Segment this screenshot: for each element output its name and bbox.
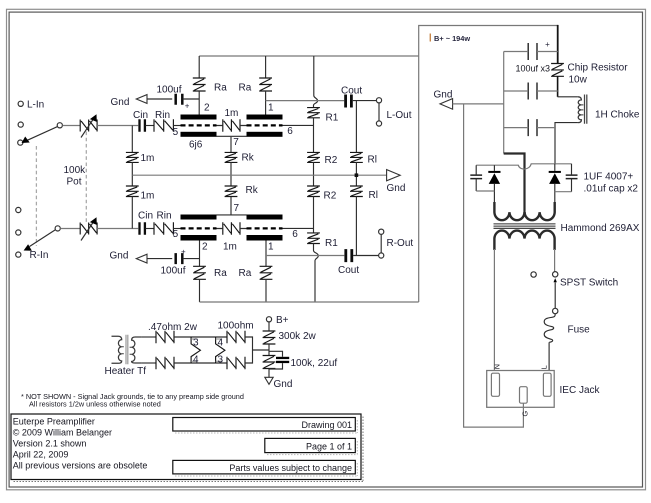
ground symbol heater — [265, 377, 293, 390]
svg-text:Page 1 of 1: Page 1 of 1 — [306, 441, 352, 451]
wire cathode to Rk R — [230, 197, 232, 215]
ground arrow R bottom — [110, 250, 148, 263]
capacitor 100uf x3 third — [528, 119, 537, 136]
wire rectifier cathode bus with hop — [476, 164, 571, 169]
wire B+ to 300k — [268, 322, 270, 331]
svg-text:10w: 10w — [569, 75, 588, 86]
svg-text:Version 2.1 shown: Version 2.1 shown — [13, 439, 87, 449]
wire gnd arrow to 100uf L — [147, 98, 172, 100]
triode U1b grid (dashed) — [247, 124, 283, 126]
wire 1m-R to R input — [131, 197, 133, 229]
resistor Rk R — [225, 185, 259, 197]
transformer core — [494, 224, 556, 228]
svg-text:Ra: Ra — [239, 268, 252, 279]
ground bus mid — [132, 174, 386, 176]
wire grid stubs 1m L — [217, 125, 247, 127]
wire Cout to L-Out — [353, 100, 377, 102]
svg-text:Ra: Ra — [214, 268, 227, 279]
resistor .47ohm 2w top — [148, 322, 198, 343]
svg-text:IEC Jack: IEC Jack — [560, 385, 601, 396]
resistor 1m (R grid leak) — [126, 186, 155, 202]
resistor Ra (L left plate) — [193, 78, 206, 91]
svg-text:R-In: R-In — [30, 250, 49, 261]
svg-text:Rin: Rin — [157, 211, 172, 222]
triode U2b cathode bar — [247, 215, 283, 220]
wire right cap to diode anode — [555, 191, 572, 193]
junction dot bus/Rl — [355, 173, 359, 177]
svg-text:Pot: Pot — [67, 177, 82, 188]
wire Ra legs to bottom rail R — [200, 279, 267, 302]
svg-text:1m: 1m — [223, 241, 237, 252]
svg-text:4: 4 — [193, 354, 199, 365]
capacitor 22uf bias — [269, 351, 337, 369]
svg-text:B+ ~ 194w: B+ ~ 194w — [434, 34, 470, 43]
svg-text:R-Out: R-Out — [387, 238, 414, 249]
ground bus PSU vertical — [503, 52, 505, 154]
wire B+ feed from PSU to preamp rails — [419, 26, 558, 303]
svg-text:1m: 1m — [225, 108, 239, 119]
inductor 1H Choke — [578, 95, 640, 124]
wire gnd elbow to center tap — [504, 154, 525, 214]
resistor Rk L — [225, 152, 255, 163]
jack R input 1 — [16, 207, 21, 212]
triode U1b plate bar — [247, 115, 283, 120]
wire choke bottom to rectifier node — [555, 123, 578, 164]
svg-text:Ra: Ra — [214, 83, 227, 94]
title text lines — [13, 417, 148, 471]
wire 100uf to pin2 node R — [183, 258, 200, 260]
wire R2-L to bus to R2-R — [313, 162, 315, 186]
wire heater right loop — [245, 337, 269, 363]
wire gnd arrow to bus — [453, 103, 504, 105]
resistor Rl R — [350, 186, 378, 201]
svg-text:Chip Resistor: Chip Resistor — [568, 62, 629, 73]
wire Cout to R-Out — [353, 255, 379, 257]
capacitor .01uf left — [470, 165, 482, 191]
svg-text:B+: B+ — [276, 315, 289, 326]
svg-text:Gnd: Gnd — [110, 250, 129, 261]
wire cap2 leads — [504, 90, 558, 92]
wire cap1 leads — [504, 51, 558, 53]
svg-text:Rk: Rk — [242, 153, 255, 164]
svg-text:Hammond 269AX: Hammond 269AX — [561, 223, 640, 234]
wire Tf to .47ohm bottom — [142, 362, 156, 364]
resistor R1 L — [307, 108, 339, 124]
svg-text:6j6: 6j6 — [189, 140, 203, 151]
resistor Rl L — [350, 152, 377, 165]
triode U1a cathode bar — [181, 132, 217, 137]
wire Rk-L to bus to Rk-R — [230, 162, 232, 186]
capacitor 100uf x3 first — [516, 40, 551, 73]
gang dashed link selector — [35, 146, 37, 246]
wire R plate output — [266, 255, 344, 257]
label B+ ~ 194w — [430, 34, 470, 43]
parts box — [173, 460, 357, 476]
svg-text:L-In: L-In — [27, 100, 44, 111]
wire 300k to 100k junction — [268, 344, 270, 356]
svg-text:3: 3 — [193, 338, 199, 349]
resistor Rin R — [154, 211, 173, 235]
resistor Rin L — [154, 110, 173, 132]
svg-text:L-Out: L-Out — [387, 110, 412, 121]
svg-text:Rl: Rl — [369, 190, 378, 201]
svg-text:Cout: Cout — [341, 86, 362, 97]
switch SPST — [531, 272, 618, 309]
capacitor 100uf L — [157, 85, 190, 111]
page box — [265, 438, 358, 454]
jack L input 3 — [18, 140, 23, 145]
triode U2a cathode bar — [181, 215, 217, 220]
svg-text:1: 1 — [268, 102, 274, 113]
wire chip resistor to choke — [557, 76, 559, 97]
triode U2b grid (dashed) — [247, 227, 283, 229]
svg-text:+: + — [181, 247, 186, 256]
selector switch SW-L — [22, 123, 63, 143]
wire selector to pot R — [60, 228, 80, 230]
svg-text:April 22, 2009: April 22, 2009 — [13, 450, 69, 460]
svg-text:1m: 1m — [141, 153, 155, 164]
svg-text:R1: R1 — [325, 238, 338, 249]
svg-text:Rl: Rl — [368, 155, 377, 166]
resistor Ra (R left plate) — [193, 266, 206, 279]
wire gnd arrow to 100uf R — [147, 258, 172, 260]
svg-text:Parts values subject to change: Parts values subject to change — [229, 463, 352, 473]
wire rail to Ra-L-left — [198, 56, 200, 78]
svg-text:.47ohm 2w: .47ohm 2w — [148, 322, 198, 333]
wire safety ground drop to IEC — [464, 104, 524, 427]
svg-text:© 2009 William Belanger: © 2009 William Belanger — [13, 428, 112, 438]
resistor .47ohm bottom — [156, 357, 174, 369]
wire cap3 leads — [504, 127, 555, 129]
wire pot R to grid network — [97, 228, 138, 230]
resistor R1 R — [307, 233, 338, 249]
transformer Heater Tf — [105, 335, 147, 377]
wire 1m-L to ground bus to 1m-R — [131, 162, 133, 186]
svg-text:All previous versions are obso: All previous versions are obsolete — [13, 461, 148, 471]
svg-text:7: 7 — [233, 137, 239, 148]
ground arrow PSU — [434, 90, 453, 110]
wire Ra-right through plate wire to pin1 L — [265, 91, 267, 115]
wire plate pin1 R through output wire to Ra — [265, 241, 267, 267]
jack L-Out — [376, 98, 411, 126]
capacitor 100uf x3 second — [528, 83, 537, 100]
label Ra Ra (L) — [214, 83, 252, 94]
svg-text:2: 2 — [204, 102, 210, 113]
svg-text:Euterpe Preamplifier: Euterpe Preamplifier — [13, 417, 95, 427]
triode U1a grid (dashed) — [181, 124, 217, 126]
label Ra Ra (R) — [214, 268, 252, 279]
svg-text:R2: R2 — [325, 155, 338, 166]
resistor R2 R — [307, 186, 337, 201]
top B+ rail (L plate supply) — [199, 55, 419, 57]
triode U1a plate bar left — [181, 115, 217, 120]
resistor 1m (L grid-grid) — [223, 108, 240, 132]
label 100k Pot — [64, 165, 87, 188]
triode U2a plate bar — [181, 235, 217, 241]
transformer Hammond 269AX primary — [494, 231, 554, 250]
wire rail to Ra-L-right — [265, 56, 267, 78]
wire 100uf to pin2 node L — [183, 98, 199, 100]
wire pot L to grid network — [97, 125, 138, 127]
resistor Chip Resistor 10w — [551, 62, 628, 85]
wire grid stubs 1m R — [217, 228, 247, 230]
wire cathode join L — [217, 135, 247, 137]
wire selector to pot L — [62, 125, 80, 127]
wire Cin to Rin L — [146, 125, 154, 127]
svg-text:100k: 100k — [64, 165, 87, 176]
resistor 1m (R grid-grid) — [223, 222, 240, 252]
node L input junction column — [131, 126, 133, 153]
resistor 300k 2w — [263, 331, 317, 344]
wire R1-R to bottom rail with hop over output wire — [314, 244, 319, 303]
svg-text:5: 5 — [173, 127, 179, 138]
wire R2-R1 column R — [313, 197, 315, 233]
wire cathode to Rk L — [230, 137, 232, 153]
wire output node to Rl L — [355, 101, 357, 153]
svg-text:Ra: Ra — [239, 83, 252, 94]
resistor Ra (L right plate) — [259, 78, 272, 91]
svg-text:3: 3 — [218, 354, 224, 365]
svg-text:+: + — [545, 40, 550, 49]
resistor R2 L — [307, 152, 338, 166]
wire Rl-R to output node — [355, 197, 357, 256]
svg-text:Rk: Rk — [246, 185, 259, 196]
svg-text:Gnd: Gnd — [387, 183, 406, 194]
wire cathode join R — [217, 214, 247, 216]
wire primary left to IEC N — [493, 249, 495, 371]
capacitor Cin L — [133, 110, 148, 132]
wire choke top lead — [558, 96, 578, 98]
capacitor Cin R — [138, 211, 153, 235]
svg-text:100uf x3: 100uf x3 — [516, 64, 551, 74]
svg-text:Heater Tf: Heater Tf — [105, 366, 147, 377]
svg-text:2: 2 — [202, 241, 208, 252]
wire Tf to .47ohm top — [142, 336, 156, 338]
jack L input 2 — [18, 122, 23, 127]
jack R input 2 — [16, 230, 21, 235]
svg-text:L: L — [540, 365, 549, 369]
svg-text:6: 6 — [292, 229, 298, 240]
svg-text:7: 7 — [234, 203, 240, 214]
capacitor .01uf right — [566, 164, 578, 192]
wire heater top bus — [174, 336, 227, 338]
svg-text:Gnd: Gnd — [111, 97, 130, 108]
transformer Hammond 269AX secondary — [494, 202, 554, 220]
wire heater bottom bus — [174, 362, 227, 364]
wire rail to R1-L with hop over plate wire — [314, 56, 318, 108]
bottom B+ rail (R plate supply) — [200, 301, 419, 303]
wire grid pin6 to R1/R2 node R — [283, 227, 314, 229]
svg-text:SPST Switch: SPST Switch — [560, 277, 618, 288]
svg-text:.01uf cap x2: .01uf cap x2 — [584, 184, 639, 195]
wire left cap to diode anode — [476, 190, 494, 192]
selector switch SW-R — [24, 226, 61, 251]
wire grid pin6 to R1/R2 node L — [283, 124, 314, 126]
svg-text:100uf: 100uf — [161, 265, 186, 276]
svg-text:Cout: Cout — [338, 265, 359, 276]
heater pins resistor 4/3 right — [216, 337, 225, 365]
svg-text:R1: R1 — [326, 112, 339, 123]
svg-text:6: 6 — [287, 126, 293, 137]
svg-text:Gnd: Gnd — [274, 379, 293, 390]
svg-text:5: 5 — [173, 229, 179, 240]
triode U2b plate bar — [247, 235, 283, 241]
IEC Jack — [487, 364, 601, 416]
ground arrow mid bus — [387, 170, 406, 194]
svg-text:All resistors 1/2w unless othe: All resistors 1/2w unless otherwise note… — [29, 400, 161, 409]
svg-text:1H Choke: 1H Choke — [595, 110, 640, 121]
ground arrow L top — [111, 95, 148, 108]
fuse — [544, 308, 590, 370]
resistor 1m (L grid leak) — [126, 152, 155, 164]
wire B+ drop to first cap — [557, 25, 559, 64]
capacitor Cout R — [338, 249, 359, 276]
svg-text:1UF 4007+: 1UF 4007+ — [584, 172, 634, 183]
svg-text:1: 1 — [268, 241, 274, 252]
svg-text:+: + — [185, 102, 190, 111]
svg-text:4: 4 — [218, 338, 224, 349]
terminal B+ heater bias — [266, 315, 288, 326]
jack L-In — [18, 100, 44, 111]
wire Cin to Rin R — [146, 228, 154, 230]
svg-text:1m: 1m — [141, 191, 155, 202]
svg-text:R2: R2 — [324, 190, 337, 201]
potentiometer 100k R (volume) — [80, 217, 97, 240]
potentiometer 100k L (volume) — [80, 114, 97, 137]
diode 1N4007 right — [549, 164, 561, 202]
svg-text:Drawing 001: Drawing 001 — [301, 420, 352, 430]
wire Rl-L to bus to Rl-R — [355, 162, 357, 186]
capacitor 100uf R — [161, 247, 187, 276]
title block box — [11, 414, 363, 482]
triode U1b cathode bar — [247, 132, 283, 137]
svg-text:Cin: Cin — [138, 211, 153, 222]
wire 100k to gnd — [268, 369, 270, 378]
svg-text:N: N — [493, 364, 502, 369]
svg-text:Rin: Rin — [155, 110, 170, 121]
svg-text:100uf: 100uf — [157, 85, 182, 96]
resistor 100ohm top — [218, 321, 254, 344]
wire Ra bottom through 100uf node to plate pin2 L — [198, 91, 200, 115]
drawing box — [173, 418, 357, 434]
triode U2a grid (dashed) — [181, 227, 217, 229]
gang dashed link pot — [85, 132, 87, 225]
wire Rin to pin5 R — [173, 228, 180, 230]
resistor 100ohm bottom — [227, 357, 245, 369]
jack R-In — [16, 250, 49, 261]
resistor Ra (R right plate) — [260, 266, 273, 279]
svg-text:300k 2w: 300k 2w — [279, 331, 317, 342]
heater pins resistor 3/4 left — [191, 337, 200, 365]
svg-text:G: G — [521, 411, 530, 417]
note text — [21, 392, 244, 409]
diode 1N4007 left — [488, 165, 500, 202]
jack R-Out — [379, 229, 414, 258]
wire plate pin2 R through 100uf node to Ra — [199, 241, 201, 267]
wire primary right to switch — [554, 249, 556, 272]
wire R1-R2 column L — [313, 118, 315, 153]
svg-text:100ohm: 100ohm — [218, 321, 254, 332]
svg-text:Gnd: Gnd — [434, 90, 453, 101]
wire L plate output — [266, 100, 345, 102]
wire Rin to pin 5 L — [173, 125, 180, 127]
svg-text:100k, 22uf: 100k, 22uf — [291, 358, 338, 369]
svg-text:Fuse: Fuse — [568, 324, 591, 335]
svg-text:Cin: Cin — [133, 110, 148, 121]
resistor 100k bias — [263, 356, 276, 369]
capacitor Cout L — [341, 86, 362, 108]
label 1UF 4007 — [584, 172, 639, 195]
